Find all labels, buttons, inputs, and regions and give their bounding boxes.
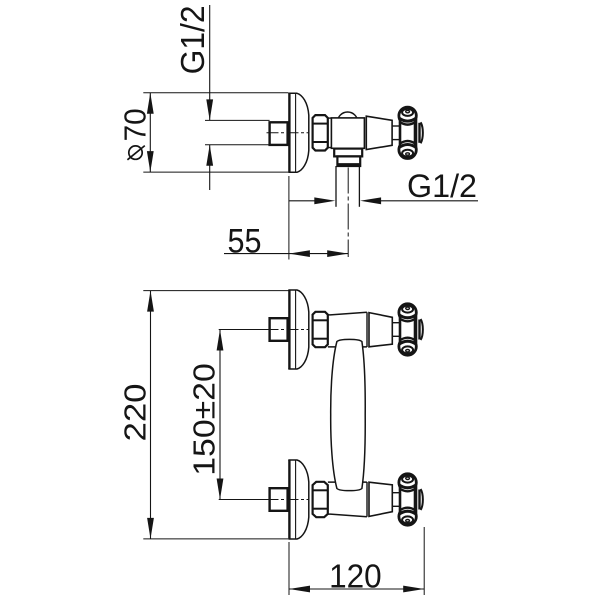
leader G1/2 right, left segment (289, 200, 322, 202)
handle collar arc bottom outer (399, 511, 416, 514)
outlet collar (334, 149, 362, 157)
handle collar arc bottom outer (399, 341, 416, 344)
extension line diameter top (143, 92, 288, 94)
handle right cap ellipse (421, 122, 423, 143)
handle right bar (414, 486, 418, 514)
taper cone (369, 482, 392, 516)
extension line thread bottom (205, 144, 270, 146)
arrow dia70 up (147, 93, 154, 114)
escutcheon bell outline (288, 93, 309, 172)
arrow 120 left (289, 586, 310, 593)
handle bottom knob ring (402, 150, 413, 157)
arrow left at pipe right edge (360, 197, 381, 204)
escutcheon wall face (288, 290, 290, 369)
handle middle cover (400, 119, 416, 146)
arrow 220 up (147, 291, 154, 312)
wall stub (threaded pipe) (270, 122, 288, 145)
nut facet lower (313, 508, 328, 510)
dimension line 220 (150, 291, 152, 539)
handle collar arc bottom inner (399, 338, 415, 341)
handle collar arc bottom outer (399, 145, 416, 148)
taper left edge (366, 482, 368, 517)
arrow 55 right (points right) (327, 250, 348, 257)
nut facet lower (313, 338, 328, 340)
dimension line dia 70 (149, 93, 151, 172)
taper cone (369, 313, 392, 347)
handle top knob (399, 304, 416, 321)
handle left bar (399, 316, 402, 344)
taper cone (366, 116, 392, 149)
dimension G1/2 top: leader line upper (209, 5, 211, 120)
body bottom edge sloped (328, 514, 367, 517)
wall stub (270, 488, 288, 511)
extension line 150 top (219, 329, 270, 331)
handle bottom knob (399, 508, 416, 525)
arrow 150 down (217, 479, 224, 500)
svg-text:220: 220 (118, 384, 153, 442)
handle collar arc top inner (399, 488, 415, 491)
neck step bottom (328, 147, 332, 149)
outlet nut band (337, 163, 361, 166)
handle bottom knob dot (406, 153, 410, 155)
handle collar arc bottom inner (399, 141, 415, 144)
handle middle cover (400, 316, 416, 343)
dimension line 55 (224, 253, 348, 255)
nut facet line lower (313, 141, 328, 143)
extension line 120 left (288, 542, 290, 595)
handle right cap bar (418, 320, 420, 340)
handle stem top (392, 492, 399, 494)
handle bottom knob (399, 338, 416, 355)
svg-text:G1/2: G1/2 (407, 168, 477, 204)
extension line diameter bottom (143, 171, 288, 173)
diameter symbol circle (129, 146, 142, 159)
handle stem bottom (392, 139, 399, 141)
handle right cap ellipse (421, 319, 423, 340)
dimension G1/2 top: arrow down (206, 99, 213, 120)
svg-text:G1/2: G1/2 (174, 5, 211, 74)
neck step top (328, 117, 332, 119)
handle collar arc top outer (399, 485, 416, 488)
escutcheon bell (288, 460, 309, 539)
connecting spindle column (331, 339, 366, 490)
wall stub (270, 318, 288, 341)
handle top knob ring (402, 109, 413, 116)
valve body (331, 118, 364, 148)
handle lower view upper (392, 304, 423, 355)
handle top knob (399, 474, 416, 491)
extension line 120 right (423, 527, 425, 595)
dimension line 120 (289, 588, 424, 590)
dimension line 150 (219, 330, 221, 500)
handle left bar (399, 486, 402, 514)
taper left edge (365, 116, 367, 149)
arrow 120 right (403, 586, 424, 593)
center line vertical outlet (347, 168, 349, 258)
handle right bar (414, 119, 418, 147)
escutcheon plate second line (295, 94, 297, 173)
handle stem top (392, 125, 399, 127)
nut facet upper (313, 489, 328, 491)
hex nut (313, 312, 328, 347)
handle stem bottom (392, 505, 399, 507)
taper left edge (366, 312, 368, 347)
handle top knob (399, 107, 416, 124)
escutcheon bell (288, 290, 309, 369)
handle top knob ring (402, 476, 413, 483)
handle collar arc top outer (399, 315, 416, 318)
handle collar arc top inner (399, 318, 415, 321)
svg-text:120: 120 (329, 557, 382, 594)
svg-text:70: 70 (117, 108, 152, 141)
outlet pipe left line (335, 166, 337, 207)
nut facet line upper (313, 123, 328, 125)
svg-text:55: 55 (228, 223, 262, 261)
handle left bar (399, 119, 402, 147)
handle stem bottom (392, 335, 399, 337)
body top edge sloped (328, 312, 367, 315)
extension line 150 bottom (219, 499, 270, 501)
arrow right at pipe left edge (314, 197, 335, 204)
center line lower valve (267, 499, 309, 501)
handle collar arc bottom inner (399, 508, 415, 511)
handle collar arc top outer (399, 118, 416, 121)
extension line wall face vertical (288, 176, 290, 260)
handle top knob ring (402, 306, 413, 313)
escutcheon plate line (295, 460, 297, 539)
handle collar arc top inner (399, 122, 415, 125)
body bottom edge (328, 346, 367, 348)
arrow dia70 down (147, 151, 154, 172)
leader G1/2 right, right segment (374, 200, 479, 202)
arrow 55 left (points left) (289, 250, 310, 257)
diameter symbol slash (127, 146, 144, 160)
dome circle on body (337, 112, 357, 132)
hex nut (313, 482, 328, 517)
extension line 220 bottom (143, 538, 288, 540)
extension line thread top (205, 119, 270, 121)
center line horizontal top view (267, 132, 309, 134)
svg-text:150±20: 150±20 (186, 363, 221, 476)
handle right cap bar (418, 490, 420, 510)
nut facet upper (313, 319, 328, 321)
handle bottom knob (399, 141, 416, 158)
body top edge (328, 481, 367, 483)
handle lower view lower (392, 474, 423, 525)
center line upper valve (267, 329, 309, 331)
handle stem top (392, 322, 399, 324)
handle (top view) (392, 107, 423, 158)
extension line 220 top (143, 290, 289, 292)
hex nut (313, 115, 328, 150)
handle top knob dot (406, 110, 410, 112)
arrow 150 up (217, 330, 224, 351)
handle bottom knob dot (406, 350, 410, 352)
escutcheon wall face (thick) (288, 93, 290, 172)
arrow 220 down (147, 518, 154, 539)
handle right cap ellipse (421, 489, 423, 510)
dimension G1/2 top: leader line lower (209, 145, 211, 190)
handle top knob dot (406, 307, 410, 309)
handle middle cover (400, 486, 416, 513)
dimension G1/2 top: arrow up (206, 145, 213, 166)
escutcheon plate line (295, 290, 297, 369)
handle bottom knob ring (402, 346, 413, 353)
outlet nut (337, 156, 360, 166)
handle bottom knob dot (406, 520, 410, 522)
handle top knob dot (406, 477, 410, 479)
escutcheon wall face (288, 460, 290, 539)
outlet pipe right line (358, 166, 360, 207)
handle bottom knob ring (402, 516, 413, 523)
handle right cap bar (418, 123, 420, 143)
handle right bar (414, 316, 418, 344)
